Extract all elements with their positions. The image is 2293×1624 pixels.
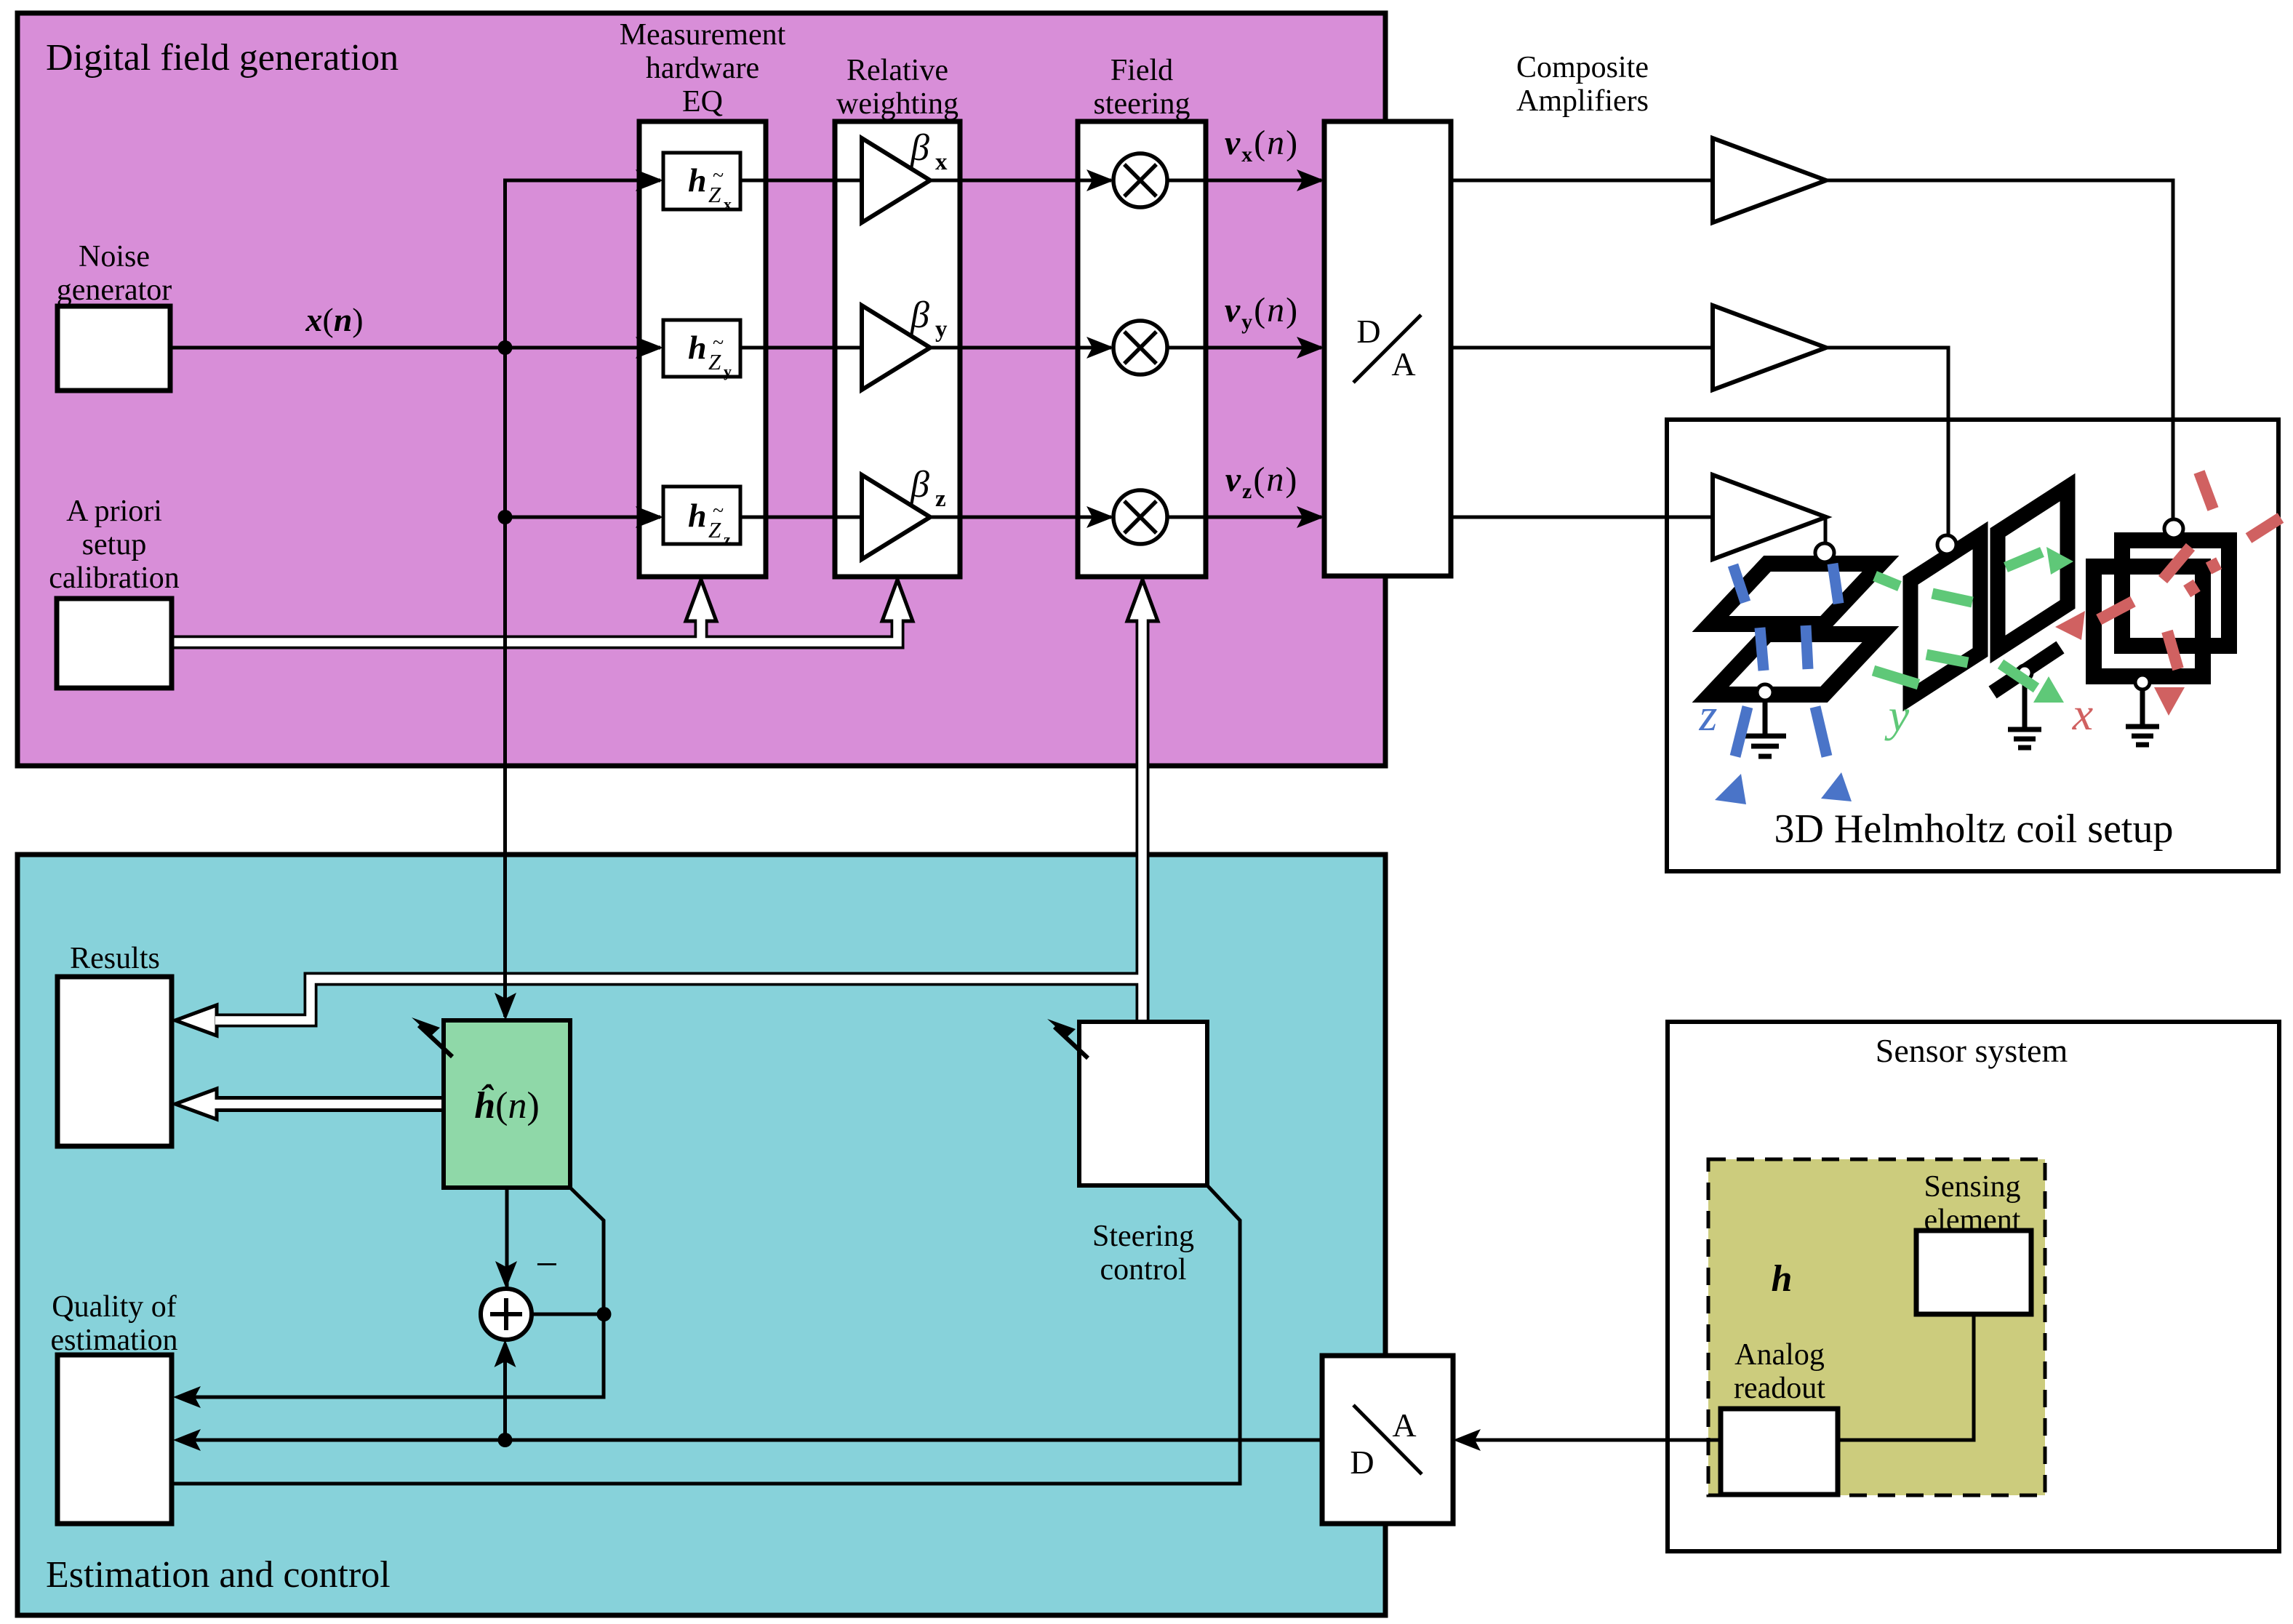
x coil front ring [2094, 567, 2203, 676]
svg-text:readout: readout [1734, 1372, 1825, 1405]
wire: steering tee to results (double line) [217, 979, 1146, 1020]
node: junction error line [597, 1307, 612, 1321]
region: Digital field generation (magenta) [17, 13, 1385, 766]
wire: steering control to field steering (double line) [1136, 620, 1150, 1022]
wire: D/A out row2 [1451, 346, 1713, 350]
svg-text:Estimation and control: Estimation and control [46, 1554, 391, 1596]
block: EQ filter h_Zy [663, 320, 740, 380]
wire: calibration bus white core [172, 619, 897, 642]
arrow down into sum [495, 1261, 517, 1289]
svg-text:Amplifiers: Amplifiers [1516, 84, 1649, 118]
y coil back ring [1998, 487, 2068, 649]
svg-text:Composite: Composite [1516, 51, 1649, 84]
svg-text:h: h [1772, 1258, 1793, 1300]
node: junction on A/D line [498, 1433, 513, 1447]
block: Results [57, 942, 172, 1146]
wire: x(n) down to h-hat estimator [503, 517, 507, 1017]
wire: steering control to quality bottom line [173, 1185, 1240, 1484]
arrow left into quality (A/D) [173, 1429, 201, 1451]
amplifier beta-z [862, 464, 946, 559]
svg-text:3D Helmholtz coil setup: 3D Helmholtz coil setup [1774, 807, 2173, 852]
ground z coil [1744, 684, 1786, 756]
svg-text:control: control [1100, 1253, 1187, 1287]
box: 3D Helmholtz coil setup [1667, 420, 2278, 871]
label: Composite Amplifiers [1516, 51, 1649, 118]
svg-text:Analog: Analog [1734, 1338, 1825, 1372]
arrow down into h-hat [495, 993, 516, 1020]
summing node [481, 1289, 532, 1340]
svg-text:z: z [1699, 689, 1718, 740]
block: Analog readout [1721, 1338, 1838, 1495]
svg-text:−: − [535, 1242, 559, 1287]
open arrow: h-hat to results [175, 1089, 444, 1119]
svg-text:A: A [1391, 345, 1415, 383]
multiplier circle row1 [1113, 153, 1167, 207]
wire: weighting to steering row2 [930, 346, 1111, 350]
arrow left into quality (error) [173, 1386, 201, 1408]
svg-text:β: β [910, 295, 929, 336]
svg-text:vz(n): vz(n) [1225, 460, 1299, 503]
svg-text:y: y [1884, 689, 1910, 741]
wire: steering to D/A row3, label vz(n) [1166, 460, 1321, 517]
arrow: adaptation arrow on steering control [1047, 1019, 1088, 1058]
wire: error down and left into quality [179, 1314, 604, 1397]
svg-text:Field: Field [1111, 54, 1173, 87]
open arrow into weighting column [882, 580, 913, 621]
label: Relative weighting [836, 54, 959, 121]
svg-text:x: x [724, 195, 732, 213]
block: A priori setup calibration [49, 495, 180, 688]
wire: sum output to junction [532, 1313, 604, 1316]
svg-text:Noise: Noise [79, 240, 150, 273]
svg-text:vy(n): vy(n) [1225, 291, 1299, 334]
block: A/D converter [1322, 1356, 1453, 1524]
wire: calibration bus (double line) [172, 620, 897, 642]
wire: calibration EQ branch white core [697, 619, 705, 645]
wire: amp3 to z coil [1825, 517, 1826, 545]
svg-text:vx(n): vx(n) [1225, 124, 1299, 167]
wire: results tee white core [215, 979, 1143, 1020]
wire: EQ to weighting row3 [740, 516, 862, 519]
arrow into h_Zx [636, 169, 663, 191]
svg-text:Sensing: Sensing [1924, 1170, 2020, 1204]
block: h-hat(n) adaptive estimator [444, 1020, 570, 1188]
svg-text:h: h [688, 329, 707, 366]
arrow into h_Zy [636, 337, 663, 359]
svg-text:x: x [2072, 688, 2093, 740]
multiplier circle row2 [1113, 321, 1167, 375]
svg-text:Relative: Relative [847, 54, 948, 87]
terminal node z coil [1815, 543, 1834, 562]
label: Measurement hardware EQ [620, 18, 786, 119]
svg-text:estimation: estimation [51, 1324, 178, 1357]
wire: x(n) from noise generator to EQ row2 [170, 301, 660, 348]
wire: EQ to weighting row1 [740, 179, 862, 183]
double-line calibration and steering buses [172, 580, 1158, 1119]
svg-text:Quality of: Quality of [52, 1290, 176, 1324]
svg-text:calibration: calibration [49, 561, 180, 595]
terminal node y coil [1937, 535, 1956, 554]
wire: amp2 to y coil [1826, 348, 1948, 537]
svg-text:Measurement: Measurement [620, 18, 786, 52]
composite amplifier 3 [1713, 475, 1826, 559]
svg-text:h: h [688, 161, 707, 199]
y coil front ring [1910, 535, 1980, 697]
svg-text:z: z [935, 486, 946, 512]
region: Estimation and control (cyan) [17, 855, 1385, 1615]
block: EQ filter h_Zx [663, 153, 740, 213]
svg-text:β: β [910, 127, 929, 169]
terminal node x coil [2164, 519, 2183, 538]
svg-text:ĥ(n): ĥ(n) [474, 1083, 540, 1127]
box: Sensor system [1668, 1022, 2279, 1551]
arrow left into A/D [1453, 1429, 1481, 1451]
arrowheads (filled) [173, 169, 1481, 1451]
arrow into D/A row1 [1297, 169, 1324, 191]
svg-text:steering: steering [1094, 87, 1190, 121]
wire: analog readout to A/D [1459, 1439, 1721, 1442]
label: Field steering [1094, 54, 1190, 121]
svg-text:x: x [935, 149, 948, 175]
y coil back ring bottom face [1993, 647, 2060, 692]
wire: A/D output line to quality [179, 1439, 1322, 1442]
wire: D/A out row1 [1451, 179, 1713, 183]
block: measurement hardware EQ column [639, 121, 766, 577]
svg-text:Steering: Steering [1092, 1220, 1194, 1253]
multiplier circle row3 [1113, 490, 1167, 544]
z coil upper ring [1710, 564, 1881, 624]
arrow up into sum [495, 1340, 516, 1367]
block: field steering column [1078, 121, 1206, 577]
wire: steering to D/A row1, label vx(n) [1166, 124, 1321, 180]
green y field dashes [1873, 547, 2073, 703]
svg-text:generator: generator [57, 273, 172, 307]
wire: sensing element to analog readout [1838, 1314, 1974, 1440]
box: sensor dashed olive h region [1708, 1159, 2045, 1495]
arrow into mult2 [1087, 337, 1114, 359]
arrow into h_Zz [636, 506, 663, 528]
3D Helmholtz coils [1699, 472, 2281, 804]
svg-text:y: y [935, 316, 948, 343]
wire: D/A out row3 [1451, 516, 1713, 519]
wire: amp1 to x coil [1826, 180, 2173, 520]
block: Quality of estimation [51, 1290, 178, 1524]
svg-text:A priori: A priori [66, 495, 162, 528]
wire: steering to D/A row2, label vy(n) [1166, 291, 1321, 348]
ground y coil [2008, 665, 2041, 748]
svg-text:z: z [724, 530, 731, 548]
ground x coil [2126, 675, 2159, 745]
open arrow into EQ column [686, 580, 716, 621]
blue z field dashes [1715, 564, 1852, 804]
wire: steering line white core [1138, 619, 1147, 1022]
svg-text:setup: setup [82, 528, 147, 561]
block: Steering control [1079, 1022, 1207, 1287]
arrow: h-hat down into sum [507, 1188, 559, 1287]
block: Sensing element [1916, 1170, 2031, 1314]
arrow: adaptation arrow on h-hat [412, 1017, 452, 1057]
block: D/A converter [1324, 121, 1451, 576]
x coil back ring [2122, 540, 2229, 646]
svg-text:Results: Results [70, 942, 160, 975]
arrow into D/A row2 [1297, 337, 1324, 359]
svg-text:~: ~ [713, 500, 724, 522]
amplifier beta-y [862, 295, 948, 390]
wire: branch up into sum bottom [503, 1344, 507, 1440]
svg-text:D: D [1350, 1444, 1374, 1481]
wire: weighting to steering row3 [930, 516, 1111, 519]
arrow into mult3 [1087, 506, 1114, 528]
svg-text:EQ: EQ [682, 85, 723, 119]
svg-text:~: ~ [713, 164, 724, 187]
svg-text:A: A [1392, 1407, 1416, 1444]
node: junction on x(n) row2 [498, 340, 513, 355]
svg-text:~: ~ [713, 332, 724, 354]
node: junction on x(n) row3 [498, 510, 513, 524]
svg-text:x(n): x(n) [305, 301, 363, 338]
open arrow into results (from steering) [175, 1005, 217, 1036]
wire: EQ to weighting row2 [740, 346, 862, 350]
block: relative weighting column [835, 121, 960, 577]
svg-text:h: h [688, 497, 707, 534]
arrow into D/A row3 [1297, 506, 1324, 528]
svg-text:β: β [910, 464, 929, 505]
wire: branch down to EQ row3 [505, 348, 661, 517]
arrow into mult1 [1087, 169, 1114, 191]
wire: calibration branch to EQ [695, 620, 708, 642]
svg-text:D: D [1356, 313, 1380, 350]
red x field dashes [2055, 472, 2281, 716]
open arrow into field steering column [1127, 580, 1158, 621]
svg-text:Sensor system: Sensor system [1876, 1032, 2068, 1069]
svg-text:weighting: weighting [836, 87, 959, 121]
wire: weighting to steering row1 [930, 179, 1111, 183]
composite amplifier 1 [1713, 138, 1826, 223]
block: Noise generator [57, 240, 172, 391]
composite amplifier 2 [1713, 305, 1826, 390]
svg-text:hardware: hardware [646, 52, 759, 85]
wire: branch up to EQ row1 [505, 180, 661, 348]
svg-text:y: y [724, 362, 732, 380]
z coil lower ring [1710, 634, 1881, 695]
wire: h-hat copy diagonal down [570, 1188, 604, 1314]
amplifier beta-x [862, 127, 948, 223]
block: EQ filter h_Zz [663, 487, 740, 548]
svg-text:Digital field generation: Digital field generation [46, 37, 399, 79]
